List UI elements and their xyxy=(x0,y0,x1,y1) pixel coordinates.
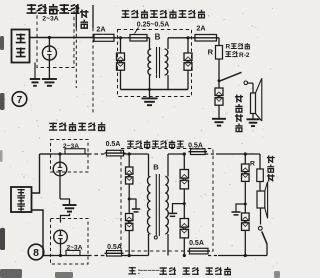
label: text xyxy=(17,197,25,204)
node: A2 top junction xyxy=(186,36,189,39)
wire: primary bottom lead to rail xyxy=(149,75,151,90)
wire: R to switch node xyxy=(218,59,220,81)
wire (dashed, after F7) xyxy=(208,255,218,257)
fuse F5 0.5A xyxy=(107,251,122,256)
wire: ground to arrester VB xyxy=(61,214,70,223)
svg-text:R-2: R-2 xyxy=(239,52,250,59)
wire: switch to speaker xyxy=(248,82,253,84)
wire: junction to arrester V1 xyxy=(48,38,50,47)
wire: bottom rail through protector B xyxy=(54,255,88,257)
wire: arrester A2 to earth rail xyxy=(187,70,189,89)
svg-text:8: 8 xyxy=(33,247,39,259)
svg-text:0.5A: 0.5A xyxy=(189,240,204,247)
svg-text:2~3A: 2~3A xyxy=(42,16,59,23)
terminal dot under transformer xyxy=(154,236,157,239)
wire: amp earth stub xyxy=(34,63,36,79)
label: note chars 架空 xyxy=(182,267,198,274)
wire: transformer primary top lead xyxy=(149,38,151,49)
switch blade S2 xyxy=(262,232,267,245)
svg-text:–––––: ––––– xyxy=(139,266,160,275)
wire: VB to bottom rail xyxy=(60,244,62,255)
wire: F2 to transformer primary xyxy=(147,37,150,39)
wire: speaker bottom lead xyxy=(260,208,262,225)
svg-text:7: 7 xyxy=(17,95,23,106)
wire: right midpoint ground tap xyxy=(236,204,245,212)
wire: secondary bottom lead xyxy=(167,234,169,256)
switch blade xyxy=(219,72,242,81)
wire: secondary to middle branch xyxy=(168,153,184,155)
transformer core line 2 (8) xyxy=(158,174,160,236)
lightning arrester A9 xyxy=(242,213,250,230)
boundary line top-right (solid) xyxy=(92,5,94,28)
wire: junction to arrester A2 xyxy=(187,38,189,53)
wire: speaker top lead xyxy=(252,83,254,93)
wire: R2 to speaker xyxy=(259,182,261,192)
node: right branch midpoint xyxy=(244,203,247,206)
wire (dashed line section, bottom) xyxy=(88,255,105,257)
node: left branch bottom xyxy=(128,254,131,257)
label: text xyxy=(17,205,25,212)
wire into fuse F2 xyxy=(118,37,131,39)
transformer core line 1 xyxy=(156,47,158,78)
node: VB rail junction xyxy=(59,254,62,257)
node: right branch top xyxy=(244,152,247,155)
ground G2 (earth rail) xyxy=(142,98,158,105)
node: middle branch top xyxy=(183,152,186,155)
wire: left midpoint ground tap xyxy=(129,199,136,209)
node: switch pivot xyxy=(218,79,221,82)
fuse F1 2A xyxy=(94,34,114,41)
label: note chars line2 xyxy=(225,51,237,56)
ground (protector midpoint) xyxy=(63,205,77,212)
wire: top rail to arrester A4 xyxy=(128,154,130,167)
wire: amp bottom terminal riser xyxy=(32,210,44,256)
transformer primary winding (8) xyxy=(148,177,151,234)
wire: node to arrester A3 xyxy=(218,81,220,88)
svg-text:0.5A: 0.5A xyxy=(106,141,121,148)
ground (amplifier) xyxy=(30,79,40,86)
label: amp char 2 机 xyxy=(16,48,26,57)
ground (left branch) xyxy=(132,209,140,212)
dashed box: protector A xyxy=(51,140,89,173)
ground (middle branch) xyxy=(168,213,177,216)
lightning arrester A2 xyxy=(184,53,192,70)
svg-text:B: B xyxy=(153,163,159,172)
node: left branch top xyxy=(128,152,131,155)
wire: arrester A1 to earth rail xyxy=(120,70,122,89)
speaker driver xyxy=(251,93,256,114)
fuse FA 2~3A xyxy=(65,149,85,154)
wire (dashed, after F6) xyxy=(205,153,216,155)
ground (arrester A3) xyxy=(212,119,226,126)
dashed box: protector B xyxy=(51,219,89,265)
wire: secondary top lead xyxy=(167,38,169,49)
wire: rail through protector A xyxy=(51,153,89,155)
fuse F3 2A xyxy=(195,35,217,42)
wire: amp top terminal riser xyxy=(32,154,40,193)
wire: to arrester A6 xyxy=(183,154,185,170)
speaker driver LS2 xyxy=(257,191,265,208)
lightning arrester A1 xyxy=(117,53,125,70)
lightning arrester A6 xyxy=(180,170,188,189)
svg-text:2A: 2A xyxy=(196,24,205,33)
transformer primary winding xyxy=(148,49,151,75)
resistor R2 xyxy=(257,169,264,182)
svg-text:0.5A: 0.5A xyxy=(107,244,122,251)
dashed box: line arrester unit (circuit 8) xyxy=(121,149,213,252)
wire: rail to arrester VA xyxy=(59,154,61,162)
figure number 8 (circled) xyxy=(28,244,44,260)
wire: junction to arrester A1 xyxy=(120,38,122,53)
wire: riser to protector box A xyxy=(40,153,51,155)
label: note char 注 xyxy=(128,267,136,274)
wire: down to resistor R xyxy=(218,38,220,46)
wire: secondary bottom lead to rail xyxy=(167,75,169,90)
label: vertical label 线路 (line) xyxy=(80,9,89,28)
node: arrester VA tap xyxy=(58,152,61,155)
wire: rail corner down to R2 xyxy=(259,154,261,169)
boundary dashed line (line side, left) xyxy=(75,28,77,88)
node: arrester tap junction xyxy=(48,36,51,39)
ground (speaker LS1) xyxy=(247,119,260,126)
ground (arrester V1) xyxy=(42,79,57,86)
node: middle branch bottom xyxy=(183,254,186,257)
dashed box: protector unit xyxy=(37,11,74,68)
wire: F3 to resistor R xyxy=(217,37,220,39)
boundary dashed line (line side, right) xyxy=(92,28,94,115)
node: A1 top junction xyxy=(119,36,122,39)
wire: ground tap (protectors) xyxy=(60,199,70,205)
wire: rail to ground G2 xyxy=(149,90,151,99)
speaker horn LS2 xyxy=(265,182,268,219)
label: title 线路避雷器回路 xyxy=(127,140,184,147)
wire: amp output to fuse F1 xyxy=(30,37,95,39)
resistor R xyxy=(216,46,223,60)
fuse F4 0.5A xyxy=(107,150,124,156)
label: note chars line1 xyxy=(231,43,250,49)
node: right branch bottom xyxy=(244,254,247,257)
wire: A9 to bottom rail xyxy=(244,230,246,255)
label: caption 安装示意图 (installation diagram) xyxy=(49,122,105,130)
label: title text 真空避雷器 (vacuum arrester) xyxy=(27,4,80,14)
wire: secondary top lead xyxy=(167,154,169,177)
label: text xyxy=(17,189,25,196)
transformer core line 2 xyxy=(159,47,161,78)
node: left branch midpoint xyxy=(128,198,131,201)
svg-text:0.25~0.5A: 0.25~0.5A xyxy=(137,22,170,29)
svg-text:B: B xyxy=(155,33,161,42)
scan artifacts (edge smudges) xyxy=(0,36,4,50)
wire: F1 to arrester box xyxy=(114,37,118,39)
label: vertical label 扬声器 (speaker) xyxy=(267,155,275,181)
fuse F6 0.5A xyxy=(191,149,206,155)
wire: to arrester A8 xyxy=(244,154,246,164)
lightning arrester A5 xyxy=(126,214,133,231)
svg-text:2A: 2A xyxy=(96,25,105,34)
wire: bottom rail to switch xyxy=(218,255,267,257)
svg-text:R: R xyxy=(226,44,231,51)
lightning arrester A8 xyxy=(242,164,250,181)
amplifier unit box 扩音机 (circuit 8) xyxy=(11,187,32,212)
wire: secondary to fuse F3 xyxy=(168,37,195,39)
amplifier unit box 扩音机 xyxy=(12,30,30,63)
dashed box: line arrester unit xyxy=(118,30,192,97)
label: note chars 表示 xyxy=(159,267,175,274)
svg-text:R: R xyxy=(208,48,214,57)
figure number 7 (circled) xyxy=(12,92,27,107)
node: middle branch midpoint xyxy=(183,202,186,205)
wire: switch to bottom rail xyxy=(266,244,268,256)
transformer core line 1 (8) xyxy=(155,174,157,236)
wire: riser to protector box B xyxy=(43,255,54,257)
lightning arrester A3 xyxy=(215,88,223,105)
fuse FB 2~3A xyxy=(66,250,80,255)
wire: arrester V1 to ground xyxy=(48,60,50,79)
knife switch S2 (open) xyxy=(258,226,262,230)
wire: speaker to ground xyxy=(252,114,254,120)
label: amp char 1 扩 xyxy=(16,34,26,43)
gas-tube arrester V1 xyxy=(42,46,56,60)
wire: VA to midpoint ground xyxy=(59,176,61,199)
wire: A3 to ground xyxy=(218,105,220,118)
gas-tube arrester VA xyxy=(53,162,67,176)
node: rail-ground junction xyxy=(148,88,151,91)
transformer secondary winding (8) xyxy=(165,177,168,234)
wire (dashed line section, top) xyxy=(88,153,106,155)
lightning arrester A4 xyxy=(126,167,133,184)
gas-tube arrester VB xyxy=(54,230,68,244)
wire: top rail to speaker branch xyxy=(216,153,260,155)
svg-text:R: R xyxy=(250,161,255,168)
lightning arrester A7 xyxy=(180,219,188,238)
fuse F2 0.25~0.5A xyxy=(130,35,147,42)
wire: A4 to A5 xyxy=(128,184,130,214)
wire: primary top lead xyxy=(148,154,150,177)
transformer secondary winding xyxy=(165,49,168,75)
wire: middle midpoint ground tap xyxy=(173,204,185,213)
boundary line top-left (solid) xyxy=(75,5,77,28)
label: note chars 线路 xyxy=(205,267,231,275)
wire: A7 to bottom rail xyxy=(183,238,185,256)
label: title text 线路避雷器保险丝 xyxy=(121,10,205,18)
wire: A6 to A7 xyxy=(183,189,185,219)
wire: A8 to A9 xyxy=(244,181,246,213)
ground (right branch) xyxy=(232,212,241,215)
leader line to fuse F2 xyxy=(135,28,139,34)
wire: earth rail xyxy=(121,89,189,91)
wire: primary bottom lead xyxy=(148,234,150,256)
label: vertical label 高音喇叭 (horn speaker) xyxy=(235,94,243,131)
fuse F7 0.5A xyxy=(190,248,209,254)
speaker horn xyxy=(256,78,262,121)
wire: A5 to bottom rail xyxy=(128,231,130,256)
